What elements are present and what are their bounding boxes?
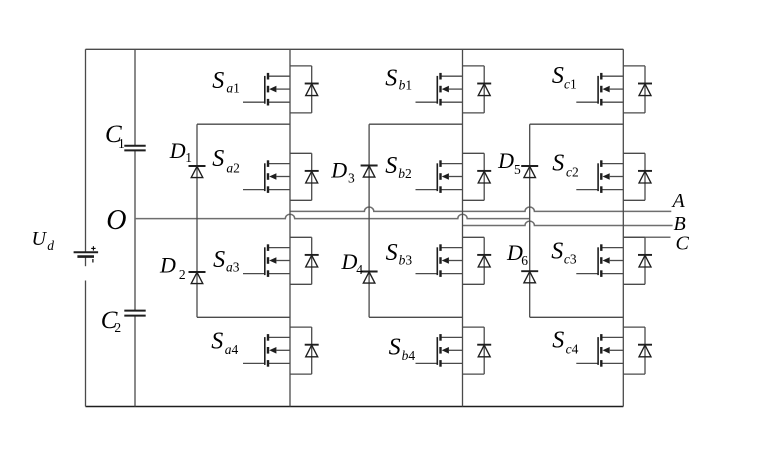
capacitor C2 — [101, 307, 146, 335]
transistor S_c3 — [551, 237, 652, 284]
wire phase B output line — [463, 221, 673, 225]
svg-text:3: 3 — [348, 170, 355, 185]
svg-text:A: A — [671, 190, 686, 212]
transistor S_c1 — [552, 63, 652, 113]
diode D4 — [341, 249, 378, 283]
svg-text:a3: a3 — [226, 260, 240, 275]
wire capacitor rail top segment — [134, 49, 136, 146]
wire phase-a leg rail — [289, 49, 291, 406]
svg-text:S: S — [385, 65, 397, 91]
svg-text:c3: c3 — [564, 251, 577, 266]
svg-text:b2: b2 — [398, 166, 412, 181]
svg-text:S: S — [552, 63, 564, 89]
svg-text:S: S — [389, 334, 401, 360]
svg-text:D: D — [330, 157, 347, 182]
transistor S_b2 — [385, 153, 491, 200]
svg-text:1: 1 — [118, 136, 125, 151]
svg-text:S: S — [551, 239, 563, 265]
voltage source U_d (battery) — [32, 228, 99, 263]
svg-text:S: S — [552, 150, 564, 176]
svg-text:4: 4 — [356, 262, 363, 277]
wire phase-b clamp bottom tie — [369, 316, 462, 318]
transistor S_a3 — [213, 237, 319, 284]
wire capacitor rail middle segment — [134, 150, 136, 310]
transistor S_a2 — [212, 146, 319, 201]
wire left edge lower (from battery -) — [85, 257, 87, 267]
svg-text:a2: a2 — [226, 160, 240, 175]
wire phase-c leg rail (right frame edge) — [622, 49, 624, 406]
svg-text:5: 5 — [514, 162, 521, 177]
wire phase-a clamp bottom tie — [197, 316, 290, 318]
svg-text:D: D — [341, 249, 358, 274]
svg-text:1: 1 — [185, 150, 192, 165]
svg-text:S: S — [386, 240, 398, 266]
svg-text:S: S — [552, 327, 564, 353]
diode D1 — [169, 138, 206, 178]
wire phase-c clamp bottom tie — [530, 316, 624, 318]
svg-text:d: d — [47, 238, 54, 253]
svg-text:S: S — [212, 146, 224, 172]
transistor S_b1 — [385, 65, 491, 113]
svg-text:C: C — [676, 233, 690, 255]
transistor S_b4 — [389, 327, 492, 374]
transistor S_c4 — [552, 327, 652, 374]
diode D6 — [506, 240, 538, 283]
svg-text:c2: c2 — [566, 164, 579, 179]
wire phase C output line — [623, 236, 670, 238]
wire phase-a clamp rail — [196, 124, 198, 317]
svg-text:S: S — [212, 68, 224, 94]
diode D3 — [330, 157, 377, 185]
wire phase-a clamp top tie — [197, 123, 290, 125]
wire left edge upper (to battery +) — [85, 49, 87, 252]
wire phase A output line — [290, 207, 671, 211]
svg-text:S: S — [213, 247, 225, 273]
svg-text:6: 6 — [521, 253, 528, 268]
capacitor C1 — [105, 121, 146, 151]
svg-text:b1: b1 — [399, 78, 413, 93]
svg-text:2: 2 — [114, 320, 121, 335]
svg-text:a4: a4 — [225, 342, 239, 357]
svg-text:c1: c1 — [564, 76, 577, 91]
svg-text:c4: c4 — [566, 341, 579, 356]
wire phase-c clamp top tie — [530, 123, 624, 125]
svg-text:O: O — [106, 205, 126, 236]
svg-text:D: D — [497, 148, 514, 173]
svg-text:S: S — [211, 329, 223, 355]
wire top DC+ rail — [86, 48, 624, 50]
transistor S_c2 — [552, 150, 652, 200]
svg-text:U: U — [32, 228, 48, 250]
wire capacitor rail bottom segment — [134, 316, 136, 407]
svg-text:S: S — [385, 153, 397, 179]
wire neutral O line (hops legs a and b) — [135, 214, 530, 218]
wire phase-c clamp rail — [529, 124, 531, 317]
wire phase-b leg rail — [462, 49, 464, 406]
wire bottom DC- rail — [86, 406, 624, 408]
wire phase-b clamp top tie — [369, 123, 462, 125]
transistor S_a1 — [212, 66, 319, 113]
diode D2 — [159, 253, 206, 284]
svg-text:b4: b4 — [402, 348, 416, 363]
svg-text:D: D — [169, 138, 186, 163]
transistor S_b3 — [386, 237, 492, 284]
svg-text:b3: b3 — [399, 253, 413, 268]
svg-text:a1: a1 — [226, 81, 240, 96]
svg-text:D: D — [159, 253, 176, 278]
diode D5 — [497, 148, 538, 177]
transistor S_a4 — [211, 327, 318, 374]
svg-text:2: 2 — [179, 267, 186, 282]
wire phase-b clamp rail — [368, 124, 370, 317]
